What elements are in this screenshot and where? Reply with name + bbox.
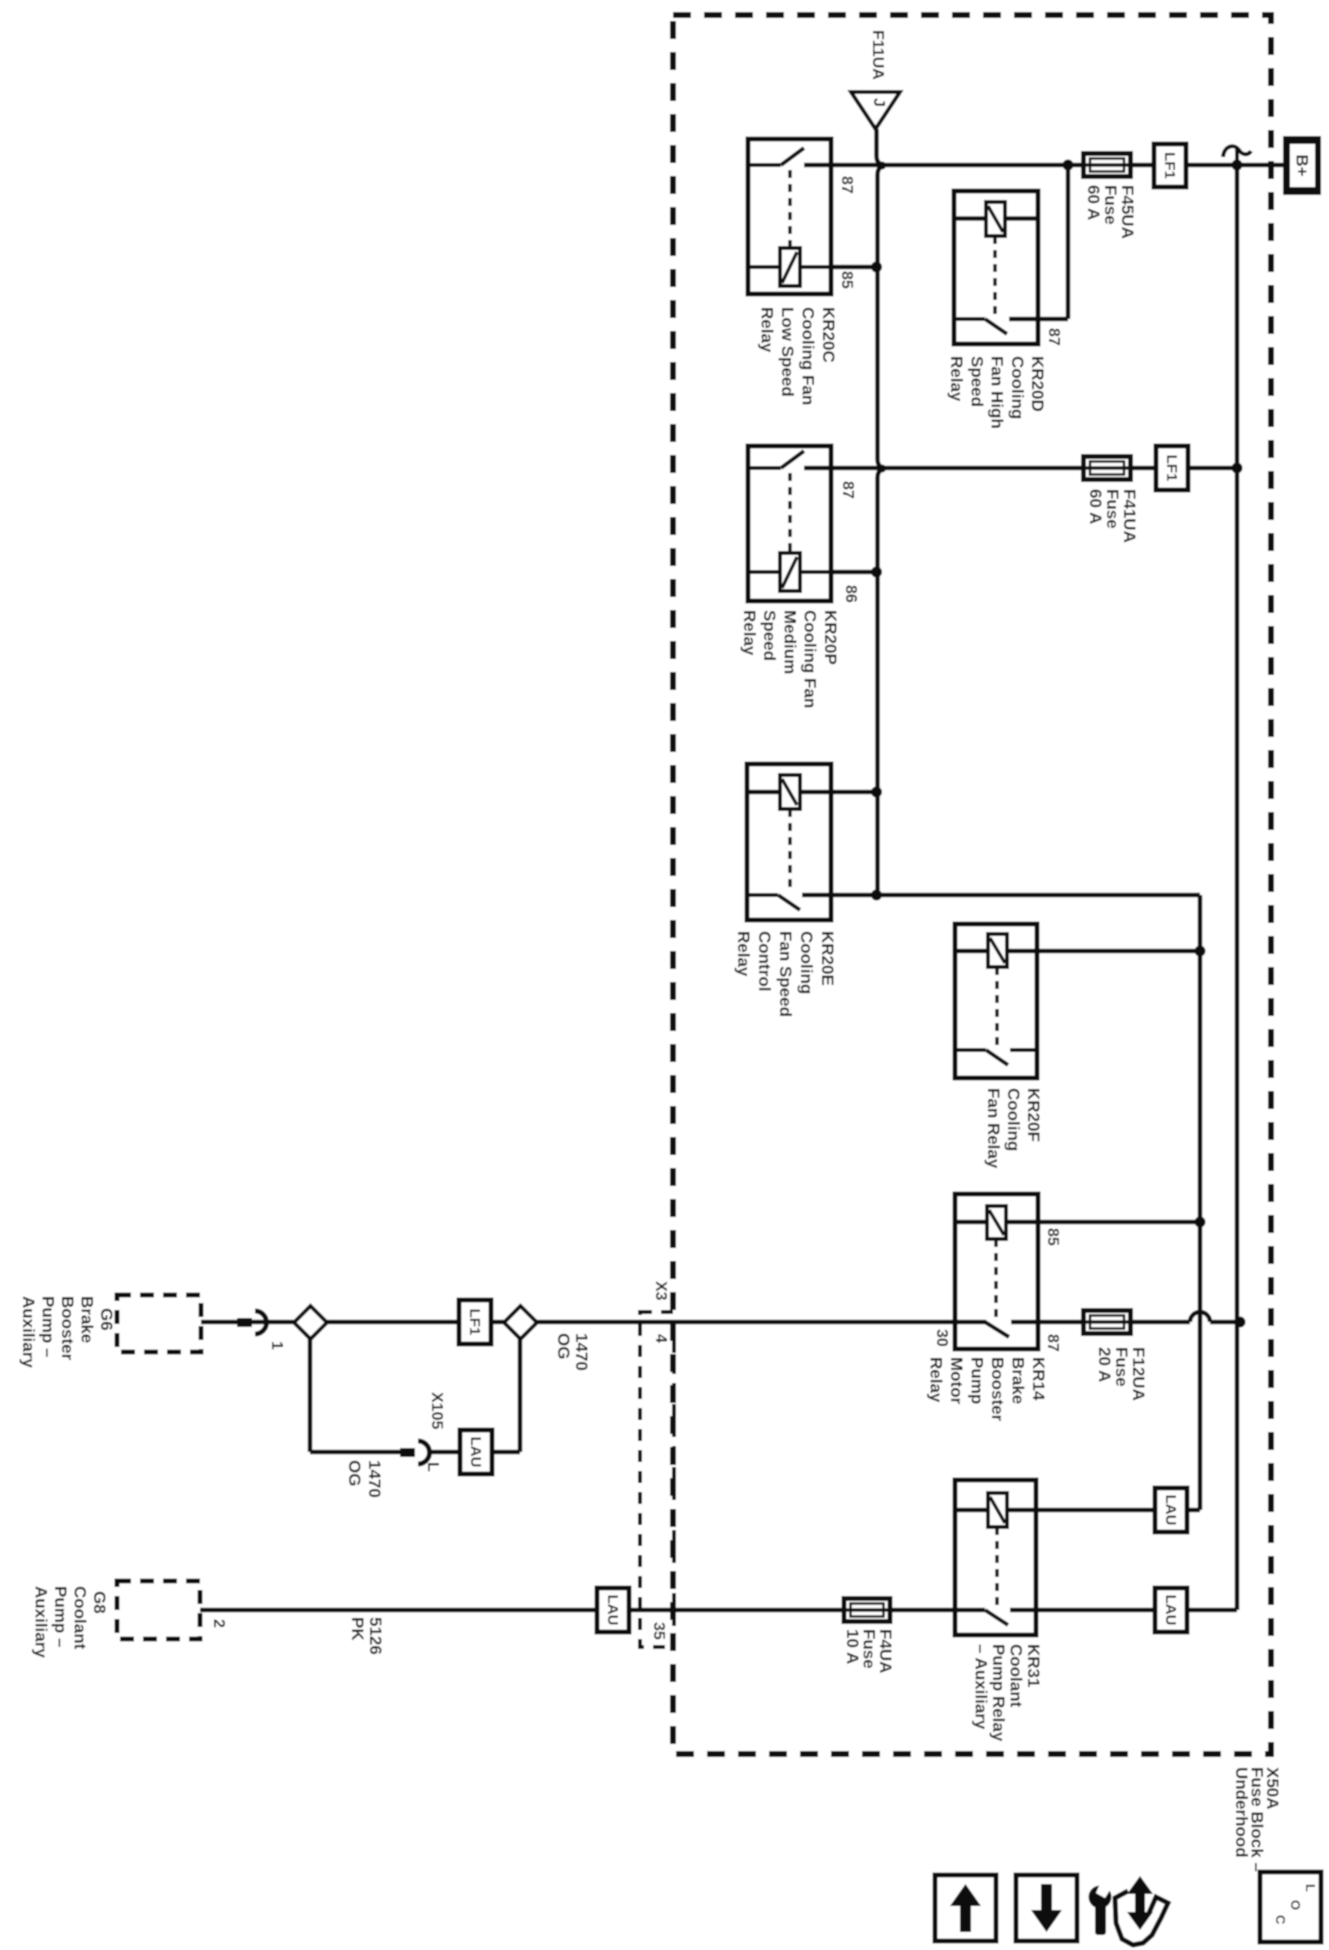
wire 5126 PK G8 to lower LAU <box>200 1608 597 1613</box>
svg-text:LF1: LF1 <box>1163 455 1180 482</box>
wire KR31 coil to upper LAU <box>956 1508 1155 1513</box>
wire F4UA fuse to KR31 pin <box>890 1608 985 1613</box>
label F41UA Fuse 60 A <box>1086 489 1139 543</box>
wire lower LAU to F4UA fuse <box>629 1608 890 1613</box>
terminal LF1 on 1470 OG <box>459 1300 491 1344</box>
pin 35 X3 <box>650 1622 667 1640</box>
svg-text:LF1: LF1 <box>1161 152 1178 179</box>
pin 87 KR20C <box>838 176 855 194</box>
label KR20E <box>734 931 837 1017</box>
svg-text:LAU: LAU <box>604 1595 621 1626</box>
label wire 1470 OG at X105 <box>345 1460 384 1498</box>
svg-text:L: L <box>424 1462 441 1472</box>
svg-text:1: 1 <box>268 1341 285 1350</box>
fuse F41UA 60 A <box>1084 457 1131 480</box>
label KR14 <box>927 1357 1049 1422</box>
svg-text:85: 85 <box>1044 1228 1061 1246</box>
wire KR20D pin87 vertical up to F45UA feed <box>1066 165 1071 319</box>
pin 85 KR14 <box>1044 1228 1061 1246</box>
svg-text:87: 87 <box>1044 1334 1061 1352</box>
connector X105 pin L (bar and socket) <box>400 1441 430 1464</box>
wire B+ feed rail (KR20C 87 to B+) <box>804 163 1283 168</box>
label KR20D <box>947 356 1047 429</box>
relay KR20P Cooling Fan Medium Speed Relay <box>748 446 831 601</box>
terminal LF1 on F41UA feed <box>1156 446 1188 490</box>
wire KR20F coil to bus <box>955 949 1200 954</box>
pin 2 G8 <box>210 1619 227 1628</box>
power symbol B+ <box>1283 136 1321 195</box>
wire KR20C pin85 to rail <box>831 265 877 270</box>
svg-text:C: C <box>1273 1915 1288 1925</box>
pin 87 KR20P <box>839 481 856 499</box>
relay KR20E Cooling Fan Speed Control Relay <box>747 764 831 920</box>
label KR20P <box>740 610 840 708</box>
label F11UA <box>869 30 886 80</box>
pin 86 KR20P <box>842 585 859 603</box>
fuse F45UA 60 A <box>1084 154 1131 177</box>
wire lower-right LAU to right rail <box>1187 1608 1237 1613</box>
svg-text:X3: X3 <box>652 1281 669 1301</box>
svg-text:LF1: LF1 <box>466 1309 483 1336</box>
wire right bus vertical (KR20E out down to KR31 coil branch) <box>1198 895 1203 1510</box>
pin 1 G6 <box>268 1341 285 1350</box>
label X50A Fuse Block - Underhood <box>1232 1767 1282 1872</box>
fuse F12UA 20 A <box>1084 1311 1131 1334</box>
svg-text:J: J <box>870 98 887 107</box>
terminal LAU on 5126 PK <box>597 1588 629 1632</box>
wire KR20P pin86 to rail <box>831 570 877 575</box>
terminal LAU on KR31 coil <box>1155 1488 1187 1532</box>
wire X105 to LAU <box>428 1450 460 1455</box>
pin 30 KR14 <box>933 1329 950 1347</box>
wire KR14 coil pin85 to bus <box>955 1220 1200 1225</box>
connector pin 1 of G6 (bar and socket) <box>237 1311 267 1334</box>
icon down arrow box <box>1016 1875 1077 1941</box>
node F12UA rail junction <box>1235 1317 1246 1328</box>
label wire 1470 OG at X3 <box>554 1333 591 1371</box>
wire riser up to splice2 <box>518 1339 523 1452</box>
wire right rail vertical (B+ junction down to KR31 switch out) <box>1235 165 1240 1610</box>
pin L X105 <box>424 1462 441 1472</box>
wire 1470 OG from splice to KR14 pin30 <box>537 1320 986 1325</box>
pin 85 KR20C <box>838 271 855 289</box>
wire LAU to riser <box>492 1450 520 1455</box>
icon up arrow box <box>935 1875 996 1941</box>
wire KR20D pin87 horizontal <box>1009 317 1068 322</box>
wire main vertical rail from F11UA triangle down to KR20E switch (with splice jogs) <box>877 129 886 895</box>
splice diamond S2 <box>504 1306 537 1339</box>
label KR31 <box>972 1644 1044 1742</box>
svg-text:86: 86 <box>842 585 859 603</box>
node B+ rail junction <box>1232 160 1243 171</box>
component G8 Coolant Pump - Auxiliary (dashed box) <box>117 1581 200 1639</box>
node KR20F coil junction <box>1195 946 1206 957</box>
node KR20C 85 junction <box>871 262 882 273</box>
label F12UA Fuse 20 A <box>1095 1347 1148 1401</box>
svg-text:35: 35 <box>650 1622 667 1640</box>
component G6 Brake Booster Pump - Auxiliary (dashed box) <box>117 1295 201 1352</box>
node KR20D 87 junction <box>1063 160 1074 171</box>
svg-text:LAU: LAU <box>1162 1595 1179 1626</box>
label F4UA Fuse 10 A <box>843 1629 895 1673</box>
wire KR14 pin87 to F12UA fuse <box>1011 1320 1190 1325</box>
wire KR20D coil internal bus <box>954 216 1038 221</box>
svg-text:LAU: LAU <box>1162 1495 1179 1526</box>
label X3 <box>652 1281 669 1301</box>
wire F41UA feed (KR20P 87 to right rail) <box>804 466 1237 471</box>
terminal LF1 on B+ feed <box>1154 144 1186 187</box>
label J <box>870 98 887 107</box>
pin 87 KR14 <box>1044 1334 1061 1352</box>
pin 87 KR20D <box>1045 328 1062 346</box>
label F45UA Fuse 60 A <box>1084 185 1137 239</box>
svg-text:87: 87 <box>1045 328 1062 346</box>
svg-text:LAU: LAU <box>467 1437 484 1468</box>
wire X105 branch vertical from splice1 <box>308 1339 313 1452</box>
svg-text:30: 30 <box>933 1329 950 1347</box>
pin 4 X3 <box>652 1334 669 1343</box>
wire upper LAU to right bus <box>1187 1508 1200 1513</box>
svg-text:O: O <box>1288 1900 1303 1910</box>
svg-text:4: 4 <box>652 1334 669 1343</box>
relay KR20C Cooling Fan Low Speed Relay <box>748 139 831 294</box>
svg-text:F11UA: F11UA <box>869 30 886 80</box>
wire F12UA fuse to right rail <box>1210 1320 1240 1325</box>
label X105 <box>428 1392 445 1429</box>
terminal LAU on X105 branch <box>460 1430 492 1474</box>
junction dots <box>871 160 1246 1328</box>
wire KR20E switch output to right bus <box>802 893 1200 898</box>
svg-text:L: L <box>1303 1884 1318 1892</box>
svg-text:87: 87 <box>838 176 855 194</box>
relay KR31 Coolant Pump Relay - Auxiliary <box>955 1480 1036 1635</box>
svg-text:X105: X105 <box>428 1392 445 1429</box>
node F41UA rail junction <box>1232 463 1243 474</box>
terminal LAU on KR31 switch <box>1155 1588 1187 1632</box>
icon wrench with arrows <box>1089 1876 1169 1945</box>
relay KR20F Cooling Fan Relay <box>955 924 1037 1078</box>
fuse F4UA 10 A <box>844 1599 890 1622</box>
node KR20E switch junction <box>871 890 882 901</box>
wire KR31 switch out to lower-right LAU <box>1010 1608 1155 1613</box>
wire 1470 OG G6 pin1 to splice <box>201 1320 294 1325</box>
splice stub and curl at B+ junction <box>1235 148 1239 165</box>
relay KR20D Cooling Fan High Speed Relay <box>954 191 1038 344</box>
icon LOC box <box>1260 1872 1321 1942</box>
label G6 Brake Booster Pump - Auxiliary <box>19 1296 116 1368</box>
wire X105 branch horizontal <box>310 1450 400 1455</box>
node KR20E coil junction <box>871 787 882 798</box>
splice blob at KR20C 87 junction <box>878 162 886 170</box>
label wire 5126 PK <box>348 1617 385 1655</box>
label KR20F <box>984 1088 1043 1169</box>
svg-text:B+: B+ <box>1293 154 1312 176</box>
svg-text:87: 87 <box>839 481 856 499</box>
svg-text:85: 85 <box>838 271 855 289</box>
label KR20C <box>758 307 839 405</box>
node KR20P 86 junction <box>871 567 882 578</box>
relay KR14 Brake Booster Pump Motor Relay <box>955 1194 1038 1349</box>
wire hop over bus on F12UA feed <box>1190 1312 1210 1322</box>
wire KR20E coil to rail <box>747 790 877 795</box>
fuse block border X50A (dashed) <box>673 15 1271 1754</box>
label G8 Coolant Pump - Auxiliary <box>32 1586 110 1658</box>
wire splice1 to splice2 through LF1 <box>327 1320 504 1325</box>
svg-text:2: 2 <box>210 1619 227 1628</box>
splice diamond S1 <box>294 1306 327 1339</box>
ground triangle F11UA J <box>851 92 900 129</box>
connector X3 (dashed box) <box>640 1312 674 1647</box>
node KR14 85 junction <box>1195 1217 1206 1228</box>
splice blob at KR20P 87 junction <box>878 465 886 473</box>
